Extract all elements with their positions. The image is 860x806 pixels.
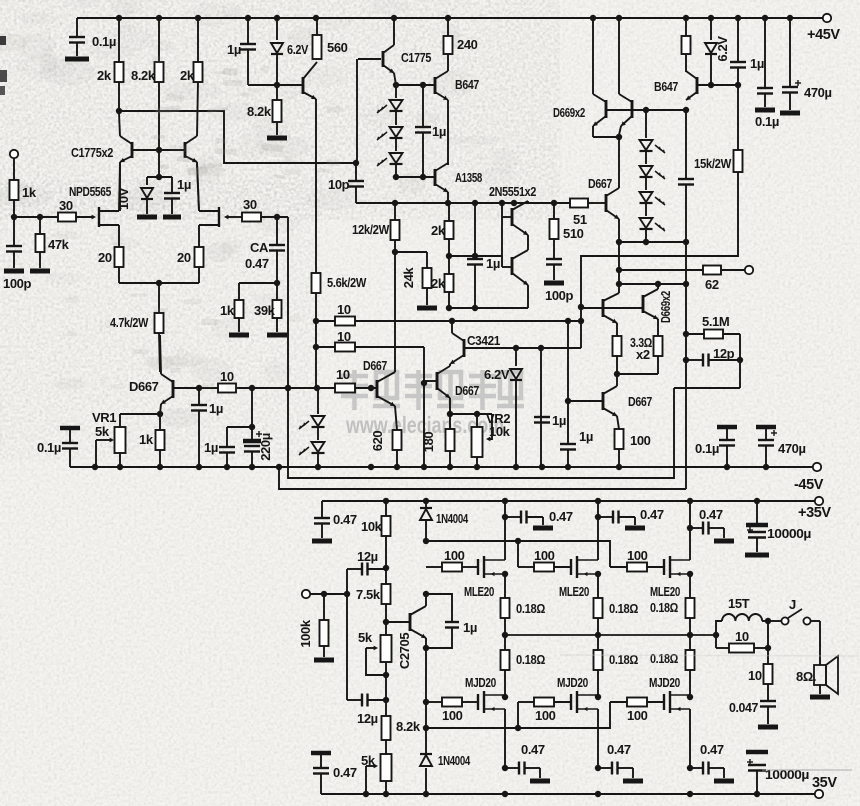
svg-text:8.2k: 8.2k xyxy=(396,719,421,734)
svg-text:C1775x2: C1775x2 xyxy=(71,145,113,160)
svg-text:MJD20: MJD20 xyxy=(649,675,680,690)
svg-text:5k: 5k xyxy=(95,424,110,439)
svg-text:C3421: C3421 xyxy=(467,333,500,348)
svg-text:100p: 100p xyxy=(3,276,31,291)
svg-text:A1358: A1358 xyxy=(455,170,482,185)
svg-text:x2: x2 xyxy=(636,347,650,362)
svg-text:MJD20: MJD20 xyxy=(465,675,496,690)
svg-text:0.47: 0.47 xyxy=(333,765,357,780)
svg-text:0.47: 0.47 xyxy=(699,507,723,522)
svg-text:30: 30 xyxy=(59,198,73,213)
svg-text:0.18Ω: 0.18Ω xyxy=(650,652,678,666)
svg-text:0.47: 0.47 xyxy=(549,509,573,524)
svg-text:100: 100 xyxy=(627,708,648,723)
svg-text:5.6k/2W: 5.6k/2W xyxy=(327,275,367,290)
svg-text:MLE20: MLE20 xyxy=(650,584,680,599)
svg-text:D667: D667 xyxy=(363,358,387,373)
svg-text:+35V: +35V xyxy=(798,505,831,521)
svg-text:12k/2W: 12k/2W xyxy=(352,222,390,237)
svg-text:180: 180 xyxy=(421,432,436,453)
svg-text:1µ: 1µ xyxy=(227,42,241,57)
svg-text:12µ: 12µ xyxy=(357,711,378,726)
svg-text:100: 100 xyxy=(627,548,648,563)
svg-text:0.18Ω: 0.18Ω xyxy=(516,601,545,616)
svg-text:2k: 2k xyxy=(97,68,112,83)
svg-text:0.18Ω: 0.18Ω xyxy=(650,601,678,615)
svg-text:0.1µ: 0.1µ xyxy=(755,114,779,129)
svg-text:100: 100 xyxy=(442,708,463,723)
svg-text:10k: 10k xyxy=(361,519,383,534)
svg-text:12µ: 12µ xyxy=(357,549,378,564)
svg-text:8.2k: 8.2k xyxy=(247,104,272,119)
svg-text:NPD5565: NPD5565 xyxy=(69,184,111,199)
svg-text:10000µ: 10000µ xyxy=(767,526,811,541)
svg-text:10p: 10p xyxy=(328,177,350,192)
svg-text:1µ: 1µ xyxy=(750,56,764,71)
svg-text:0.1µ: 0.1µ xyxy=(92,34,116,49)
svg-text:100: 100 xyxy=(630,433,651,448)
svg-text:35V: 35V xyxy=(812,775,837,791)
svg-text:0.18Ω: 0.18Ω xyxy=(609,652,638,667)
svg-text:30: 30 xyxy=(243,197,257,212)
svg-text:D669x2: D669x2 xyxy=(658,291,673,323)
svg-text:0.47: 0.47 xyxy=(640,507,664,522)
svg-text:10: 10 xyxy=(336,367,350,382)
svg-text:D667: D667 xyxy=(129,379,159,394)
svg-text:100: 100 xyxy=(535,708,556,723)
svg-text:20: 20 xyxy=(98,250,112,265)
svg-text:C2705: C2705 xyxy=(397,633,412,669)
svg-text:5k: 5k xyxy=(358,630,373,645)
svg-text:1µ: 1µ xyxy=(204,440,218,455)
svg-text:J: J xyxy=(789,597,796,612)
svg-text:1k: 1k xyxy=(139,432,154,447)
svg-text:0.047: 0.047 xyxy=(729,700,758,715)
svg-text:1µ: 1µ xyxy=(463,620,477,635)
svg-text:1N4004: 1N4004 xyxy=(436,511,469,526)
svg-text:1µ: 1µ xyxy=(552,413,566,428)
svg-text:12p: 12p xyxy=(713,346,735,361)
svg-text:4.7k/2W: 4.7k/2W xyxy=(110,315,149,330)
svg-text:D667: D667 xyxy=(588,176,612,191)
svg-text:7.5k: 7.5k xyxy=(356,587,381,602)
svg-text:2k: 2k xyxy=(180,68,195,83)
svg-text:6.2V: 6.2V xyxy=(484,367,510,382)
svg-text:-45V: -45V xyxy=(794,477,824,493)
svg-text:470µ: 470µ xyxy=(778,441,806,456)
svg-text:470µ: 470µ xyxy=(804,85,832,100)
svg-text:MLE20: MLE20 xyxy=(559,584,589,599)
svg-text:0.47: 0.47 xyxy=(245,256,269,271)
svg-text:100p: 100p xyxy=(545,288,573,303)
svg-text:51: 51 xyxy=(573,212,587,227)
svg-text:D667: D667 xyxy=(628,394,652,409)
svg-text:0.47: 0.47 xyxy=(521,742,545,757)
svg-text:620: 620 xyxy=(370,431,385,452)
svg-text:1µ: 1µ xyxy=(579,429,593,444)
svg-text:10: 10 xyxy=(337,302,351,317)
svg-text:CA: CA xyxy=(250,240,269,255)
svg-text:8Ω.: 8Ω. xyxy=(796,669,816,684)
svg-text:0.47: 0.47 xyxy=(700,742,724,757)
svg-text:1µ: 1µ xyxy=(177,177,191,192)
svg-text:10: 10 xyxy=(337,329,351,344)
svg-text:10: 10 xyxy=(735,629,749,644)
svg-text:5k: 5k xyxy=(361,753,376,768)
svg-text:D669x2: D669x2 xyxy=(553,105,585,120)
svg-text:B647: B647 xyxy=(654,79,678,94)
svg-text:2k: 2k xyxy=(431,223,446,238)
svg-text:1k: 1k xyxy=(220,303,235,318)
svg-text:0.1µ: 0.1µ xyxy=(695,441,719,456)
svg-text:B647: B647 xyxy=(455,77,479,92)
svg-text:240: 240 xyxy=(457,37,478,52)
svg-text:2N5551x2: 2N5551x2 xyxy=(489,184,536,199)
svg-text:5.1M: 5.1M xyxy=(702,314,729,329)
svg-text:0.47: 0.47 xyxy=(333,512,357,527)
svg-text:1µ: 1µ xyxy=(209,401,223,416)
svg-text:8.2k: 8.2k xyxy=(131,68,156,83)
svg-text:1k: 1k xyxy=(22,185,37,200)
svg-text:1N4004: 1N4004 xyxy=(438,753,471,768)
svg-text:47k: 47k xyxy=(48,237,70,252)
svg-text:C1775: C1775 xyxy=(401,50,431,65)
svg-text:510: 510 xyxy=(563,226,584,241)
svg-text:100: 100 xyxy=(444,548,465,563)
svg-text:220µ: 220µ xyxy=(258,433,273,461)
svg-text:15k/2W: 15k/2W xyxy=(694,156,732,171)
svg-text:20: 20 xyxy=(177,250,191,265)
svg-text:100k: 100k xyxy=(298,619,313,647)
svg-text:10: 10 xyxy=(220,369,234,384)
svg-text:10k: 10k xyxy=(489,424,511,439)
svg-text:39k: 39k xyxy=(254,303,276,318)
svg-text:0.47: 0.47 xyxy=(607,742,631,757)
svg-text:D667: D667 xyxy=(455,383,479,398)
svg-text:+45V: +45V xyxy=(807,27,840,43)
svg-text:6.2V: 6.2V xyxy=(287,42,309,57)
svg-text:24k: 24k xyxy=(401,267,416,289)
svg-text:560: 560 xyxy=(327,40,348,55)
svg-text:15T: 15T xyxy=(728,596,750,611)
svg-text:1µ: 1µ xyxy=(432,124,446,139)
svg-text:0.18Ω: 0.18Ω xyxy=(609,601,638,616)
svg-text:0.18Ω: 0.18Ω xyxy=(516,652,545,667)
svg-text:1µ: 1µ xyxy=(486,256,500,271)
svg-text:MLE20: MLE20 xyxy=(464,584,494,599)
svg-text:100: 100 xyxy=(534,548,555,563)
svg-text:MJD20: MJD20 xyxy=(557,675,588,690)
svg-text:10: 10 xyxy=(748,668,762,683)
svg-text:2k: 2k xyxy=(431,276,446,291)
svg-text:62: 62 xyxy=(705,277,719,292)
svg-text:VR1: VR1 xyxy=(92,410,116,425)
svg-text:0.1µ: 0.1µ xyxy=(37,440,61,455)
svg-text:6.2V: 6.2V xyxy=(715,36,730,62)
